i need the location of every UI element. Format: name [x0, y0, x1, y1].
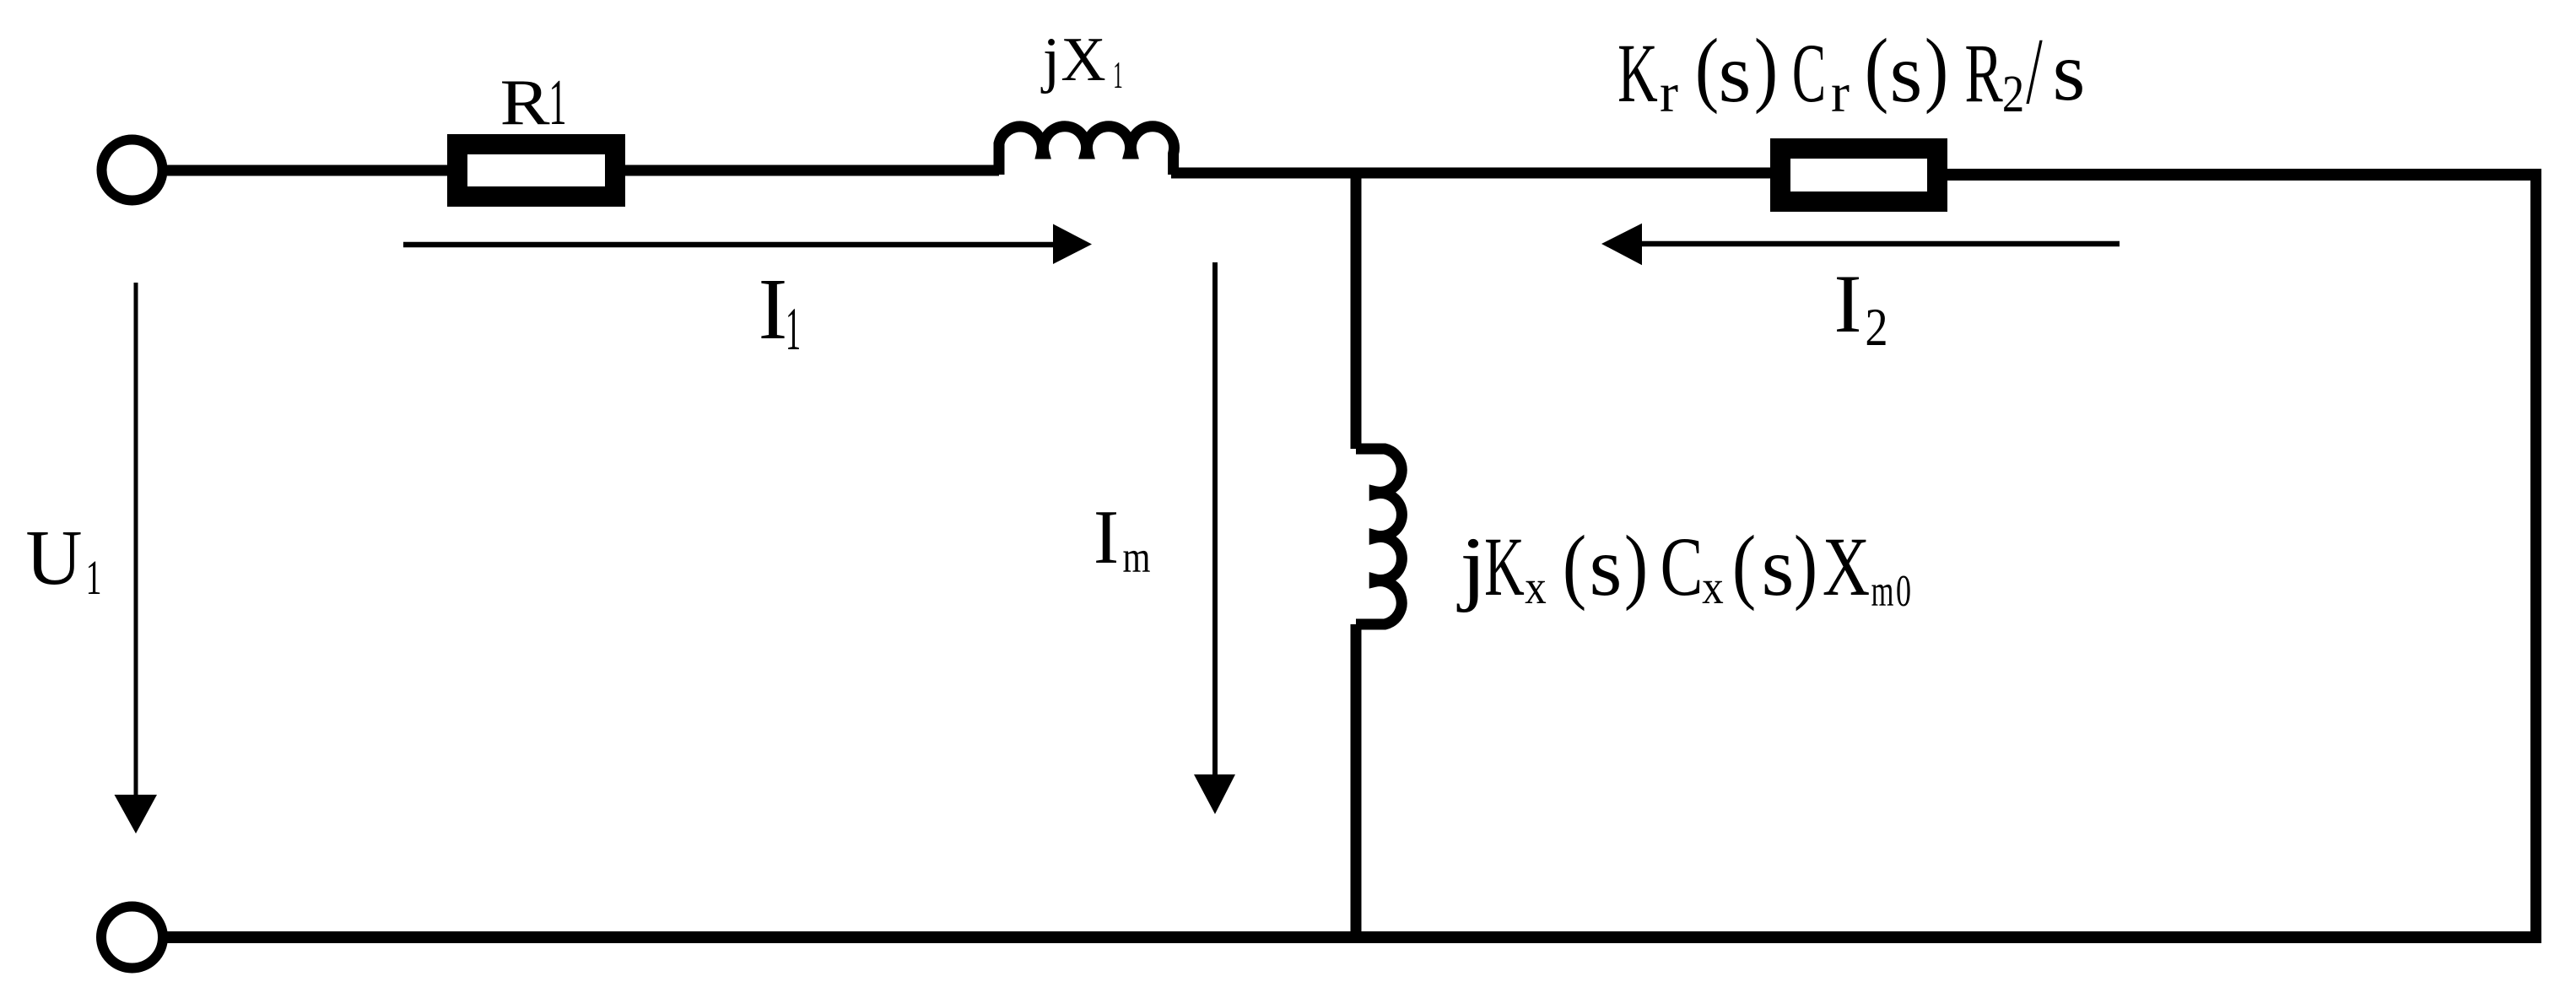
wire: inductor to R2 via junction — [1171, 168, 1780, 179]
label jKx(s)Cx(s)Xm0 — [1456, 519, 1911, 616]
svg-text:I: I — [1834, 258, 1862, 350]
label I2 — [1834, 258, 1888, 357]
svg-text:0: 0 — [1896, 566, 1911, 615]
svg-text:(: ( — [1865, 22, 1888, 116]
inductor jKx(s)Cx(s)Xm0 (vertical, 4 arcs) — [1356, 449, 1401, 624]
svg-text:2: 2 — [1865, 297, 1887, 357]
svg-text:1: 1 — [548, 67, 566, 138]
svg-text:m: m — [1871, 566, 1894, 616]
svg-text:I: I — [1094, 494, 1119, 580]
svg-text:x: x — [1702, 561, 1724, 614]
svg-text:r: r — [1831, 62, 1850, 124]
svg-text:1: 1 — [86, 550, 102, 605]
svg-text:R: R — [500, 66, 550, 138]
label U1 — [25, 515, 101, 605]
svg-text:1: 1 — [1113, 54, 1123, 97]
resistor R1 — [457, 144, 615, 197]
svg-text:X: X — [1061, 25, 1105, 94]
wire: R1 to inductor jX1 — [621, 165, 999, 176]
svg-text:/: / — [2026, 19, 2042, 124]
svg-text:): ) — [1925, 22, 1948, 116]
junction vertical wire lower — [1351, 624, 1362, 937]
terminal circle top-left — [102, 140, 163, 201]
svg-text:2: 2 — [2002, 66, 2024, 123]
svg-text:): ) — [1794, 519, 1817, 612]
svg-text:): ) — [1624, 519, 1648, 612]
svg-text:j: j — [1040, 25, 1061, 94]
wire: R2 to right edge — [1944, 169, 2531, 181]
svg-text:s: s — [1762, 520, 1795, 613]
svg-text:r: r — [1660, 62, 1678, 124]
label I1 — [759, 261, 801, 363]
svg-text:1: 1 — [786, 296, 801, 364]
arrow I1 (current, rightward) — [403, 224, 1092, 265]
svg-text:(: ( — [1732, 519, 1756, 612]
wire top: left terminal to R1 — [167, 165, 451, 176]
svg-text:U: U — [25, 515, 82, 601]
svg-text:j: j — [1456, 521, 1487, 613]
svg-text:(: ( — [1563, 519, 1586, 612]
svg-text:K: K — [1484, 521, 1525, 614]
wire right vertical — [2530, 169, 2541, 937]
arrow U1 (voltage, downward) — [115, 283, 158, 833]
svg-text:s: s — [1890, 26, 1923, 120]
inductor jX1 (4 humps) — [999, 127, 1175, 175]
svg-text:s: s — [2053, 24, 2086, 118]
terminal circle bottom-left — [101, 907, 163, 968]
svg-text:C: C — [1661, 521, 1704, 613]
label Im — [1094, 494, 1151, 582]
svg-text:x: x — [1525, 561, 1547, 614]
svg-text:I: I — [759, 261, 788, 358]
label Kr(s)Cr(s)R2/s — [1617, 19, 2085, 124]
node junction vertical wire upper — [1351, 173, 1362, 449]
svg-text:): ) — [1754, 22, 1778, 116]
arrow Im (magnetizing current, downward) — [1194, 262, 1235, 814]
svg-text:s: s — [1590, 520, 1623, 613]
resistor R2 = Kr(s)Cr(s)R2/s — [1780, 148, 1937, 202]
wire bottom — [167, 931, 2541, 943]
svg-text:K: K — [1617, 28, 1658, 121]
label R1 — [500, 66, 566, 138]
svg-text:(: ( — [1695, 22, 1719, 116]
svg-text:R: R — [1964, 27, 2002, 120]
svg-text:m: m — [1123, 533, 1151, 583]
svg-text:s: s — [1719, 26, 1752, 120]
label jX1 — [1040, 25, 1123, 96]
svg-text:C: C — [1792, 26, 1826, 119]
arrow I2 (current, leftward) — [1601, 224, 2120, 266]
svg-text:X: X — [1823, 521, 1870, 613]
